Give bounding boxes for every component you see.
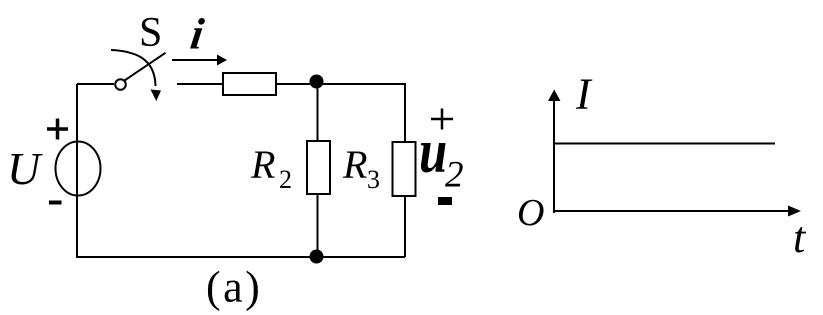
svg-text:2: 2 bbox=[279, 165, 292, 194]
graph x-axis t bbox=[553, 210, 790, 212]
svg-text:t: t bbox=[793, 213, 807, 262]
switch closing motion arc bbox=[111, 50, 156, 86]
svg-text:2: 2 bbox=[445, 155, 464, 196]
switch S blade bbox=[125, 53, 166, 81]
switch arc arrowhead bbox=[151, 90, 162, 102]
svg-text:u: u bbox=[419, 117, 447, 186]
svg-text:R: R bbox=[342, 142, 367, 187]
svg-text:S: S bbox=[139, 10, 162, 56]
voltage source U circle bbox=[56, 142, 101, 196]
resistor R1 (unlabeled) bbox=[223, 73, 276, 95]
wire top: R1 to right corner bbox=[276, 83, 405, 85]
label u2 bbox=[419, 117, 447, 186]
wire R2 branch upper bbox=[317, 84, 319, 141]
svg-text:U: U bbox=[7, 143, 43, 194]
resistor R2 body bbox=[307, 141, 330, 194]
wire bottom horizontal bbox=[76, 256, 405, 258]
wire left vertical bbox=[76, 84, 78, 257]
switch S hinge circle bbox=[115, 79, 126, 90]
svg-text:(a): (a) bbox=[206, 263, 262, 312]
svg-text:O: O bbox=[517, 192, 544, 234]
minus sign of u2 bbox=[438, 197, 452, 205]
label i bbox=[188, 10, 208, 59]
wire right vertical upper (R3 branch) bbox=[404, 83, 406, 142]
graph y-axis I bbox=[553, 100, 555, 213]
node junction dot top bbox=[310, 75, 324, 89]
plus sign of source bbox=[47, 119, 68, 140]
svg-text:R: R bbox=[250, 142, 275, 187]
svg-text:I: I bbox=[575, 70, 593, 119]
graph constant current line bbox=[554, 143, 775, 145]
node junction dot bottom bbox=[310, 250, 324, 264]
minus sign of source bbox=[49, 201, 62, 205]
plus sign of u2 bbox=[431, 109, 453, 130]
svg-text:i: i bbox=[188, 10, 208, 59]
current i arrow bbox=[172, 59, 218, 61]
wire top: source to switch bbox=[77, 83, 114, 85]
wire R2 branch lower bbox=[317, 194, 319, 257]
resistor R3 body bbox=[393, 142, 416, 196]
wire right vertical lower (R3 branch) bbox=[404, 196, 406, 257]
svg-text:3: 3 bbox=[367, 165, 380, 194]
wire top: switch to R1 bbox=[177, 83, 223, 85]
